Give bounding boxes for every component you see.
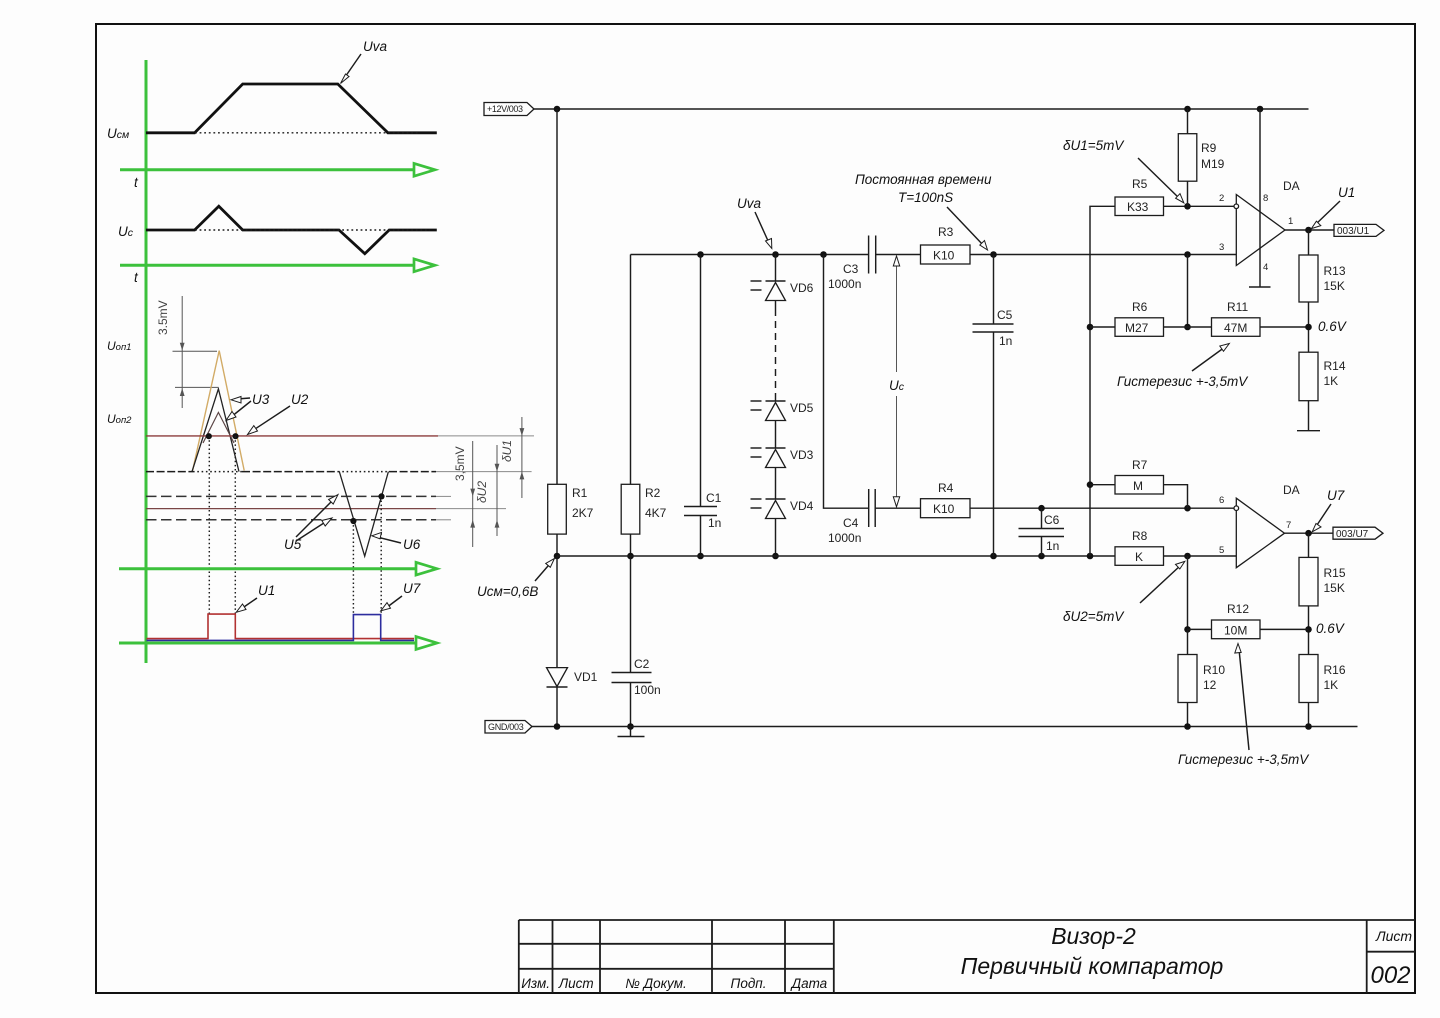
node dots on Uva rail — [697, 251, 704, 258]
capacitor C2 — [612, 672, 652, 674]
svg-text:6: 6 — [1219, 495, 1224, 506]
output wire U1 — [1285, 229, 1334, 231]
svg-text:U1: U1 — [1338, 185, 1355, 200]
wire pin3 to R6 row — [1187, 255, 1189, 328]
svg-text:R8: R8 — [1132, 529, 1148, 543]
svg-text:U7: U7 — [403, 581, 421, 596]
svg-text:Uсм=0,6В: Uсм=0,6В — [477, 584, 538, 599]
svg-text:Uсм: Uсм — [107, 126, 129, 141]
t axis 4 — [119, 642, 416, 645]
svg-text:4: 4 — [1263, 262, 1268, 273]
resistor R16 — [1299, 655, 1318, 703]
wire C4 branch — [824, 255, 869, 509]
svg-text:R14: R14 — [1324, 359, 1346, 373]
U7 pulse blue trace — [147, 615, 415, 641]
svg-text:R12: R12 — [1227, 602, 1249, 616]
svg-text:002: 002 — [1370, 962, 1410, 989]
svg-text:Гистерезис +-3,5mV: Гистерезис +-3,5mV — [1117, 374, 1249, 389]
svg-text:U1: U1 — [258, 583, 275, 598]
resistor R11 — [1212, 318, 1261, 337]
op-amp DA bottom — [1236, 498, 1284, 568]
svg-text:K33: K33 — [1127, 200, 1149, 214]
svg-text:1K: 1K — [1324, 678, 1339, 692]
node dots on V — [350, 518, 356, 524]
svg-text:Первичный компаратор: Первичный компаратор — [961, 953, 1224, 979]
wire C1 column — [700, 255, 702, 507]
svg-text:M27: M27 — [1125, 321, 1149, 335]
svg-text:Uc: Uc — [889, 378, 905, 393]
svg-text:0.6V: 0.6V — [1318, 319, 1348, 334]
svg-text:5: 5 — [1219, 545, 1224, 556]
diode VD5 — [766, 400, 786, 402]
svg-text:2: 2 — [1219, 193, 1224, 204]
U3 black peak — [192, 389, 239, 472]
svg-text:VD5: VD5 — [790, 401, 814, 415]
resistor R6 — [1090, 326, 1115, 328]
svg-text:C1: C1 — [706, 491, 722, 505]
svg-text:003/U7: 003/U7 — [1336, 529, 1369, 540]
svg-text:3: 3 — [1219, 242, 1224, 253]
svg-text:GND/003: GND/003 — [488, 722, 524, 732]
svg-text:C4: C4 — [843, 516, 859, 530]
t axis 3 — [119, 567, 416, 570]
svg-text:1000n: 1000n — [828, 277, 861, 291]
svg-text:U7: U7 — [1327, 488, 1345, 503]
lower hysteresis dashed line — [146, 519, 436, 521]
dotted guide lines — [209, 436, 381, 614]
orange input peak — [193, 351, 245, 471]
svg-text:M19: M19 — [1201, 157, 1225, 171]
svg-text:Дата: Дата — [790, 976, 828, 991]
svg-text:DA: DA — [1283, 179, 1300, 193]
svg-text:δU2: δU2 — [475, 481, 489, 503]
center brown line — [146, 508, 436, 510]
ground symbol under R14 — [1297, 430, 1320, 432]
svg-text:K10: K10 — [933, 249, 955, 263]
svg-text:Лист: Лист — [558, 976, 594, 991]
svg-text:1n: 1n — [1046, 539, 1059, 553]
Uon1 level tick — [173, 350, 218, 352]
svg-text:U6: U6 — [403, 537, 421, 552]
capacitor C6 — [1019, 528, 1065, 530]
resistor R13 — [1308, 230, 1310, 255]
svg-text:C2: C2 — [634, 657, 650, 671]
upper hysteresis dashed line — [146, 495, 436, 497]
svg-text:10M: 10M — [1224, 624, 1247, 638]
+12V rail wire — [534, 108, 1309, 110]
output wire U7 — [1285, 532, 1334, 534]
wire C5 column — [993, 255, 995, 325]
op-amp DA top — [1236, 195, 1285, 266]
svg-text:Лист: Лист — [1375, 928, 1412, 944]
svg-text:0.6V: 0.6V — [1316, 621, 1346, 636]
resistor R10 — [1187, 629, 1189, 654]
wire R4 row — [875, 507, 920, 509]
svg-text:R11: R11 — [1227, 300, 1248, 314]
GND/003 flag — [485, 721, 532, 734]
svg-text:1: 1 — [1288, 216, 1293, 227]
flag 003/U7 — [1333, 527, 1383, 539]
capacitor C5 — [973, 323, 1014, 325]
U2 level line — [146, 435, 438, 437]
wire Uva rail — [631, 254, 869, 256]
svg-text:2K7: 2K7 — [572, 506, 594, 520]
wire R1 bottom — [556, 534, 558, 556]
V dip U6 curve — [339, 472, 388, 557]
U1 pulse red trace — [147, 614, 415, 639]
node on rail — [554, 106, 561, 113]
svg-text:Подп.: Подп. — [731, 976, 767, 991]
svg-text:R6: R6 — [1132, 300, 1148, 314]
svg-text:Гистерезис +-3,5mV: Гистерезис +-3,5mV — [1178, 752, 1310, 767]
baseline dotted — [146, 471, 436, 473]
svg-text:R13: R13 — [1324, 264, 1346, 278]
svg-text:Uva: Uva — [363, 39, 387, 54]
resistor R12 — [1188, 628, 1212, 630]
pin 8 and pin 4 wire through op-amp — [1259, 109, 1261, 287]
svg-text:δU2=5mV: δU2=5mV — [1063, 609, 1125, 624]
svg-text:4K7: 4K7 — [645, 506, 667, 520]
svg-text:Uva: Uva — [737, 196, 761, 211]
svg-text:7: 7 — [1286, 520, 1291, 531]
left bus wire — [1090, 206, 1115, 556]
svg-text:R5: R5 — [1132, 177, 1148, 191]
diode VD6 — [766, 280, 786, 282]
resistor R3 — [921, 245, 971, 264]
Uc measure arrow — [896, 258, 898, 373]
node dots on U2 line — [206, 433, 212, 439]
svg-text:R4: R4 — [938, 481, 954, 495]
diode VD4 — [766, 498, 786, 500]
svg-text:U3: U3 — [252, 392, 270, 407]
diode chain wire — [775, 255, 777, 282]
svg-text:Изм.: Изм. — [521, 976, 550, 991]
svg-text:R15: R15 — [1324, 566, 1346, 580]
resistor R9 — [1187, 109, 1189, 134]
capacitor C1 — [684, 506, 717, 508]
svg-text:Визор-2: Визор-2 — [1051, 923, 1136, 949]
svg-text:3,5mV: 3,5mV — [453, 446, 467, 481]
svg-text:K10: K10 — [933, 502, 955, 516]
svg-text:100n: 100n — [634, 683, 661, 697]
wire VD1 top — [556, 556, 558, 668]
svg-text:R2: R2 — [645, 486, 661, 500]
svg-text:R16: R16 — [1324, 663, 1346, 677]
svg-text:δU1=5mV: δU1=5mV — [1063, 138, 1125, 153]
svg-text:VD6: VD6 — [790, 281, 814, 295]
wire R2 column — [630, 255, 632, 485]
svg-text:Uc: Uc — [118, 224, 134, 239]
svg-text:12: 12 — [1203, 678, 1217, 692]
resistor R8 — [1115, 547, 1164, 566]
wire C2 top — [630, 556, 632, 673]
svg-text:VD3: VD3 — [790, 448, 814, 462]
node Ucm — [554, 553, 561, 560]
svg-text:R9: R9 — [1201, 141, 1217, 155]
flag 003/U1 — [1334, 224, 1384, 236]
svg-text:8: 8 — [1263, 193, 1268, 204]
svg-text:1000n: 1000n — [828, 531, 861, 545]
svg-text:Постоянная времени: Постоянная времени — [855, 172, 992, 187]
svg-text:15K: 15K — [1324, 581, 1345, 595]
svg-text:1K: 1K — [1324, 374, 1339, 388]
resistor R4 — [921, 499, 971, 518]
resistor R1 — [548, 484, 567, 534]
t axis 1 — [120, 168, 413, 171]
resistor R5 — [1115, 197, 1164, 216]
U3 peak level tick — [175, 386, 218, 388]
diode VD3 — [766, 447, 786, 449]
GND rail — [532, 726, 1358, 728]
diode VD1 — [547, 668, 568, 687]
capacitor C4 — [868, 489, 870, 527]
svg-text:δU1: δU1 — [500, 440, 514, 462]
svg-text:T=100nS: T=100nS — [898, 190, 953, 205]
resistor R15 — [1308, 533, 1310, 557]
svg-text:U2: U2 — [291, 392, 309, 407]
svg-text:R3: R3 — [938, 225, 954, 239]
svg-text:DA: DA — [1283, 483, 1300, 497]
resistor R14 — [1299, 352, 1318, 401]
wire R1 top — [556, 109, 558, 484]
dashed wire — [775, 309, 777, 395]
svg-text:C6: C6 — [1044, 513, 1060, 527]
resistor R7 — [1090, 484, 1115, 486]
+12V/003 power flag — [484, 103, 534, 116]
Ucm rail — [557, 555, 1115, 557]
svg-text:R1: R1 — [572, 486, 588, 500]
svg-text:15K: 15K — [1324, 279, 1345, 293]
svg-text:C3: C3 — [843, 262, 859, 276]
resistor R2 — [621, 484, 640, 534]
ground symbol under C2 — [630, 727, 632, 737]
svg-text:Uоп1: Uоп1 — [107, 339, 131, 353]
svg-text:003/U1: 003/U1 — [1337, 226, 1370, 237]
capacitor C3 — [868, 236, 870, 274]
svg-text:M: M — [1133, 479, 1143, 493]
t axis 2 — [120, 264, 413, 267]
svg-text:Uоп2: Uоп2 — [107, 412, 132, 426]
svg-text:1n: 1n — [708, 516, 721, 530]
svg-text:C5: C5 — [997, 308, 1013, 322]
svg-text:3.5mV: 3.5mV — [156, 300, 170, 335]
wire C6 column — [1041, 508, 1043, 528]
time axis vertical — [145, 60, 148, 663]
waveform Uc curve — [146, 206, 437, 254]
svg-text:VD4: VD4 — [790, 499, 814, 513]
svg-text:+12V/003: +12V/003 — [487, 104, 523, 114]
wire pin5 node to R12 — [1187, 556, 1189, 629]
svg-text:1n: 1n — [999, 334, 1012, 348]
svg-text:№ Докум.: № Докум. — [625, 976, 687, 991]
svg-text:R10: R10 — [1203, 663, 1225, 677]
svg-text:47M: 47M — [1224, 321, 1247, 335]
wire VD1 bottom — [556, 687, 558, 727]
waveform Ucm curve — [146, 84, 437, 133]
svg-text:R7: R7 — [1132, 458, 1148, 472]
svg-text:VD1: VD1 — [574, 670, 598, 684]
svg-text:K: K — [1135, 550, 1143, 564]
small dark peak — [203, 412, 234, 443]
